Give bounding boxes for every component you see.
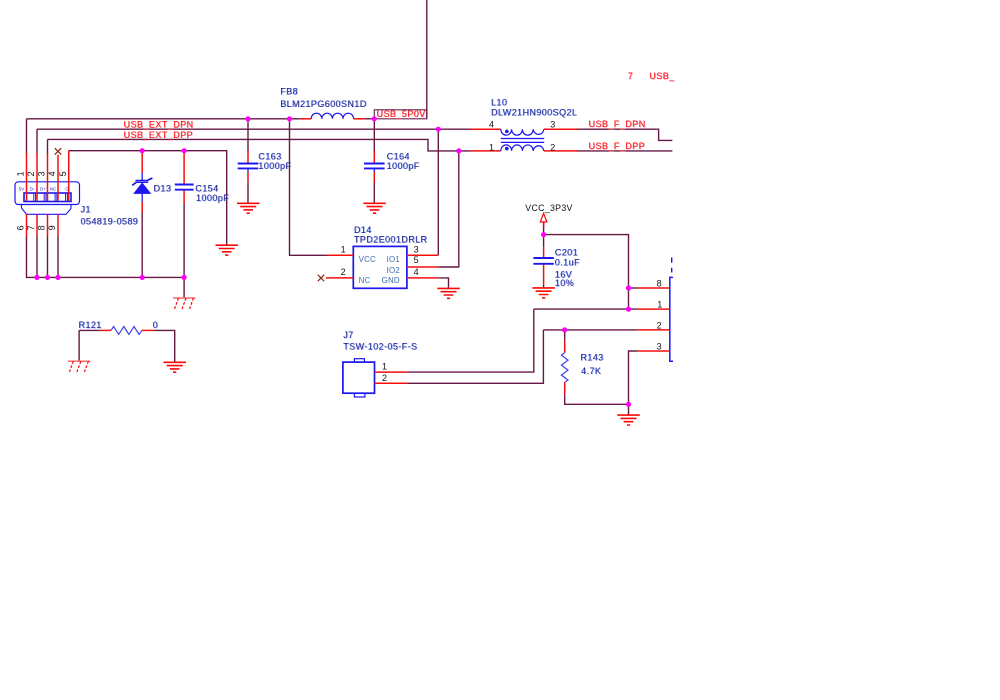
J7 value label TSW-102-05-F-S (343, 342, 417, 352)
wire D13 branch (141, 212, 143, 277)
FB8 reference label (280, 86, 298, 96)
wire C163 column (247, 119, 249, 203)
wire R143 bottom (565, 394, 629, 404)
junction C163 top (245, 116, 250, 121)
wire net USB_EXT_DPP (48, 139, 471, 151)
U pin stub 2 (637, 329, 670, 331)
wire VCC_3P3V branch to U pin8 (544, 235, 629, 310)
svg-text:4: 4 (414, 267, 419, 277)
D14 pin name GND (382, 276, 400, 285)
svg-text:USB_F_DPN: USB_F_DPN (589, 119, 646, 129)
svg-text:1: 1 (341, 245, 346, 255)
J1 pin stub 8 (47, 214, 49, 236)
wire C154 ground drop (183, 203, 185, 297)
J1 pin label 5V (19, 186, 26, 191)
svg-text:VCC_3P3V: VCC_3P3V (525, 203, 572, 213)
header J7 (343, 359, 407, 397)
J1 pin label D- (30, 186, 35, 191)
svg-text:4.7K: 4.7K (581, 366, 601, 376)
J1 pin number 3 (37, 171, 47, 176)
wire D14 VCC branch (290, 119, 328, 256)
D14 pin number 4 (414, 267, 419, 277)
ground earth under C201 (532, 288, 555, 298)
U pin stub 8 (637, 287, 670, 289)
svg-text:2: 2 (26, 171, 36, 176)
svg-text:2: 2 (550, 143, 555, 153)
ground earth under R143 node (617, 415, 640, 425)
junction D14 VCC branch (287, 116, 292, 121)
J1 pin label D+ (40, 186, 46, 191)
power symbol VCC_3P3V (540, 213, 547, 226)
svg-text:USB_: USB_ (649, 71, 675, 81)
svg-text:4: 4 (47, 171, 57, 176)
J7 reference label (343, 330, 353, 340)
connector J1 body (15, 182, 80, 215)
U pin number 1 (657, 300, 662, 310)
U pin stub 1 (637, 308, 670, 310)
R121 value label 0 (153, 320, 158, 330)
IC U partial body right edge (670, 258, 673, 362)
wire J1 pin5 ground net (69, 151, 227, 245)
ground chassis under R121 left (68, 361, 91, 373)
svg-text:6: 6 (16, 225, 26, 230)
U pin stub 3 (637, 350, 670, 352)
junction rail C154 (182, 275, 187, 280)
wire C164 column (373, 119, 375, 203)
svg-text:1: 1 (382, 362, 387, 372)
wire U pin1 row (407, 309, 638, 372)
J1 pin number 2 (26, 171, 36, 176)
FB8 value label BLM21PG600SN1D (280, 99, 367, 109)
U pin number 3 (657, 342, 662, 352)
D14 pin name NC (359, 276, 371, 285)
J1 pin stub 4 (57, 155, 59, 201)
svg-text:0: 0 (153, 320, 158, 330)
wire U pin8 stub (629, 287, 638, 289)
R121 reference label (79, 320, 102, 330)
J7 pin number 1 (382, 362, 387, 372)
R143 reference label (580, 352, 603, 362)
wire U pin3 row (629, 351, 638, 415)
svg-text:TPD2E001DRLR: TPD2E001DRLR (354, 235, 428, 245)
off-page net label USB_ (649, 71, 675, 81)
D14 pin number 2 (341, 267, 346, 277)
svg-text:0.1uF: 0.1uF (555, 257, 580, 267)
resistor R143 (561, 341, 568, 395)
ground earth under D14 pin4 (437, 288, 460, 298)
D14 pin number 1 (341, 245, 346, 255)
wire USB_5P0V off-page riser (426, 0, 428, 118)
junction D14 IO2 riser (456, 148, 461, 153)
svg-text:1: 1 (489, 143, 494, 153)
junction U pin1 (626, 307, 631, 312)
capacitor C164 (364, 151, 385, 183)
junction D14 IO1 riser (436, 127, 441, 132)
D14 pin name VCC (359, 255, 376, 264)
svg-text:BLM21PG600SN1D: BLM21PG600SN1D (280, 99, 367, 109)
junction VCC_3P3V (541, 232, 546, 237)
svg-text:FB8: FB8 (280, 86, 298, 96)
svg-text:D-: D- (30, 186, 35, 191)
J1 pin stub 7 (36, 214, 38, 236)
svg-text:D+: D+ (40, 186, 46, 191)
svg-text:3: 3 (550, 119, 555, 129)
U pin number 8 (657, 279, 662, 289)
capacitor C163 (238, 151, 259, 183)
svg-text:1000pF: 1000pF (387, 161, 420, 171)
ground earth under C164 (363, 203, 386, 213)
svg-text:054819-0589: 054819-0589 (81, 216, 139, 226)
D14 reference label (354, 225, 372, 235)
common-mode choke L10 (471, 129, 578, 151)
J1 pin stub 3 (47, 153, 49, 201)
D13 reference label (154, 183, 172, 193)
VCC_3P3V net label (525, 203, 572, 213)
wire net USB_F_DPP (577, 150, 672, 152)
svg-text:L10: L10 (491, 97, 507, 107)
off-page pin 7 label (628, 71, 633, 81)
J1 reference label (81, 205, 91, 215)
L10 pin number 1 (489, 143, 494, 153)
svg-text:NC: NC (359, 276, 371, 285)
svg-text:8: 8 (37, 225, 47, 230)
wire R121 right drop (154, 330, 174, 361)
svg-text:8: 8 (657, 279, 662, 289)
wire D14 IO1 riser (437, 129, 439, 255)
J1 pin number 9 (47, 225, 57, 230)
svg-text:J7: J7 (343, 330, 353, 340)
wire D14 GND drop (438, 278, 448, 288)
J1 pin number 8 (37, 225, 47, 230)
C154 value label 1000pF (196, 193, 229, 203)
wire R121 left drop (79, 330, 100, 360)
D14 value label TPD2E001DRLR (354, 235, 428, 245)
svg-text:2: 2 (382, 373, 387, 383)
svg-text:9: 9 (47, 225, 57, 230)
wire net USB_5P0V horizontal bus (27, 118, 375, 120)
no-connect X on J1 pin 4 (55, 148, 61, 154)
J1 pin label NC (50, 186, 57, 191)
svg-text:USB_EXT_DPN: USB_EXT_DPN (124, 120, 194, 130)
wire R143 top stub (564, 330, 566, 341)
svg-text:D14: D14 (354, 225, 372, 235)
svg-text:2: 2 (341, 267, 346, 277)
wire J1 shield rail (27, 236, 185, 277)
L10 value label DLW21HN900SQ2L (491, 107, 577, 117)
net label USB_F_DPP (589, 141, 646, 151)
junction U pin8 (626, 285, 631, 290)
wire U pin2 row (407, 330, 638, 383)
svg-text:C163: C163 (258, 151, 281, 161)
J1 pin stub 9 (57, 214, 59, 236)
svg-text:VCC: VCC (359, 255, 376, 264)
svg-text:USB_EXT_DPP: USB_EXT_DPP (124, 130, 193, 140)
R143 value label 4.7K (581, 366, 601, 376)
svg-text:C154: C154 (195, 183, 218, 193)
wire net USB_F_DPN (577, 129, 672, 140)
C154 reference label (195, 183, 218, 193)
J1 pin stub 5 (68, 151, 70, 201)
ground earth under J1 pin5 net (216, 245, 239, 255)
svg-text:IO1: IO1 (387, 255, 400, 264)
svg-text:D13: D13 (154, 183, 172, 193)
svg-text:USB_5P0V: USB_5P0V (377, 109, 426, 119)
svg-text:1: 1 (16, 171, 26, 176)
L10 pin number 4 (489, 119, 494, 129)
svg-text:TSW-102-05-F-S: TSW-102-05-F-S (343, 342, 417, 352)
net label USB_EXT_DPP (124, 130, 193, 140)
svg-text:5: 5 (414, 255, 419, 265)
wire D14 IO2 riser (438, 151, 459, 267)
J1 pin number 1 (16, 171, 26, 176)
wire J1 pin3 riser (47, 139, 49, 153)
svg-text:4: 4 (489, 119, 494, 129)
C163 reference label (258, 151, 281, 161)
zener diode D13 (132, 151, 152, 213)
svg-text:5: 5 (58, 171, 68, 176)
svg-text:7: 7 (26, 225, 36, 230)
svg-text:GND: GND (382, 276, 400, 285)
J1 pin number 7 (26, 225, 36, 230)
capacitor C201 (533, 247, 553, 285)
svg-text:3: 3 (37, 171, 47, 176)
svg-text:R121: R121 (79, 320, 102, 330)
junction R143 ground (626, 402, 631, 407)
J1 pin stub 6 (26, 214, 28, 236)
J1 pin label G (65, 186, 69, 191)
C201 reference label (555, 247, 578, 257)
svg-text:7: 7 (628, 71, 633, 81)
net label USB_EXT_DPN (124, 120, 194, 130)
C201 value label 16V (555, 270, 572, 280)
J1 value label 054819-0589 (81, 216, 139, 226)
C201 value label 10% (555, 278, 574, 288)
U pin number 2 (657, 321, 662, 331)
svg-text:J1: J1 (81, 205, 91, 215)
J1 pin number 5 (58, 171, 68, 176)
svg-text:USB_F_DPP: USB_F_DPP (589, 141, 646, 151)
junction C164 top (372, 116, 377, 121)
svg-text:1000pF: 1000pF (196, 193, 229, 203)
svg-text:2: 2 (657, 321, 662, 331)
C164 reference label (387, 151, 410, 161)
D14 pin number 5 (414, 255, 419, 265)
svg-text:C201: C201 (555, 247, 578, 257)
net label USB_F_DPN (589, 119, 646, 129)
D14 pin name IO1 (387, 255, 400, 264)
svg-text:C164: C164 (387, 151, 410, 161)
J1 pin number 4 (47, 171, 57, 176)
svg-text:NC: NC (50, 186, 57, 191)
J1 pin number 6 (16, 225, 26, 230)
C163 value label 1000pF (258, 161, 291, 171)
svg-text:1000pF: 1000pF (258, 161, 291, 171)
svg-text:3: 3 (414, 245, 419, 255)
wire J1 pin1 riser (26, 119, 28, 154)
C201 value label 0.1uF (555, 257, 580, 267)
L10 reference label (491, 97, 507, 107)
wire VCC_3P3V column (543, 223, 545, 248)
ground earth under C163 (237, 203, 260, 213)
L10 pin number 3 (550, 119, 555, 129)
svg-text:IO2: IO2 (387, 266, 400, 275)
svg-text:R143: R143 (580, 352, 603, 362)
C164 value label 1000pF (387, 161, 420, 171)
wire C201 ground stub (543, 285, 545, 287)
wire J1 pin2 riser (36, 129, 38, 153)
svg-text:3: 3 (657, 342, 662, 352)
junction rail D13 (140, 275, 145, 280)
junction D13 top (140, 148, 145, 153)
J1 pin stub 2 (36, 153, 38, 201)
ESD IC D14 (326, 246, 438, 288)
ground chassis under C154 rail (173, 298, 196, 310)
svg-text:5V: 5V (19, 186, 26, 191)
no-connect X on D14 pin 2 (318, 275, 324, 281)
J7 pin number 2 (382, 373, 387, 383)
junction rail pin8 (45, 275, 50, 280)
net label USB_5P0V (377, 109, 426, 119)
L10 pin number 2 (550, 143, 555, 153)
junction C154 top (182, 148, 187, 153)
node USB_5P0V label box (374, 110, 427, 119)
ground earth under R121 right (164, 362, 187, 372)
capacitor C154 (175, 151, 194, 204)
junction rail pin7 (34, 275, 39, 280)
junction rail pin9 (55, 275, 60, 280)
ferrite bead FB8 (300, 113, 365, 119)
junction R143 top (562, 327, 567, 332)
resistor R121 (100, 327, 155, 335)
J1 pin stub 1 (26, 153, 28, 201)
svg-text:1: 1 (657, 300, 662, 310)
wire net USB_EXT_DPN (37, 128, 471, 130)
svg-text:10%: 10% (555, 278, 574, 288)
D14 pin name IO2 (387, 266, 400, 275)
svg-text:DLW21HN900SQ2L: DLW21HN900SQ2L (491, 107, 577, 117)
D14 pin number 3 (414, 245, 419, 255)
